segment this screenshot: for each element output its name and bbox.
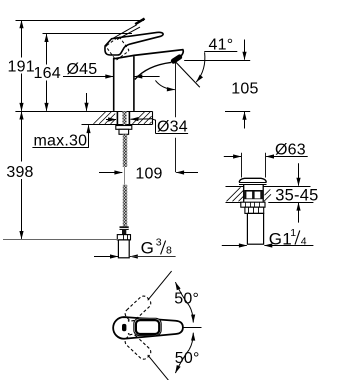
small arc at aerator [155,80,174,89]
centerline right [184,327,202,329]
body right edge [133,56,135,111]
dimension max.30 [32,93,89,148]
svg-text:1: 1 [290,227,296,239]
mounting nut [116,126,132,130]
D63 extension lines [241,153,243,178]
valve seat line [244,190,262,192]
valve tail pipe [247,213,263,244]
ref line top of raised handle (191) [16,20,144,22]
50 deg leader arcs up [189,306,193,323]
dimension D34 leader and label [106,118,188,133]
50 deg diagonal up [148,271,172,300]
threaded rod [123,111,127,134]
dimension 164 [46,34,48,111]
small slot [122,324,126,331]
label G3/8 [131,256,176,258]
dashed lever position up [123,294,153,323]
valve collar castellated [245,207,264,213]
deck level ref line right (105 bottom) [225,111,250,113]
svg-text:4: 4 [301,235,307,247]
dimension G3/8 [94,256,146,258]
dimension G1 1/4 [222,245,314,247]
svg-text:35-45: 35-45 [275,186,318,204]
41 deg arc [196,52,205,82]
svg-text:398: 398 [6,164,33,181]
hose lower segment [123,185,127,227]
50 deg diagonal down [148,355,172,380]
hose end collar [120,226,129,230]
dimension 105 [244,40,246,129]
dots [128,320,130,322]
deck bottom line [82,124,153,126]
svg-text:50°: 50° [174,291,199,308]
svg-text:164: 164 [34,65,61,82]
aerator extension line [175,62,177,117]
dimension 109 [99,172,198,174]
dashed lever position down [123,332,153,361]
D63 dimension [224,156,308,158]
deck hatch right [133,112,152,124]
shank tube [116,111,118,125]
raised lever thin lines [112,25,137,39]
window outer outline [134,318,161,335]
svg-text:Ø45: Ø45 [67,61,98,78]
valve locknut flange [241,202,265,207]
lower fitting [119,129,129,134]
deck top line [15,111,152,113]
valve body [243,184,245,202]
handle top view body [113,317,183,339]
aerator level ref line (105 top) [184,60,250,62]
valve dark band with windows [244,191,263,200]
svg-text:8: 8 [166,245,172,257]
aerator [173,57,179,61]
stream line [176,62,200,87]
dimension 398 [21,112,23,239]
drain deck top line [226,186,244,188]
svg-text:G1: G1 [269,229,292,248]
svg-text:191: 191 [8,58,35,75]
dimension 35-45 [298,163,300,222]
drain deck hatch [227,187,272,201]
svg-text:G: G [141,239,154,258]
raised lever tip stroke [135,19,144,25]
G3/8 tube [118,240,129,258]
svg-text:50°: 50° [175,350,200,367]
valve cap dome [239,178,266,182]
dimension 191 [21,20,23,110]
handle window [136,320,159,334]
svg-text:3: 3 [156,237,162,249]
deck right edge [152,111,154,125]
svg-text:Ø34: Ø34 [157,119,188,136]
50 deg leader arcs down [189,333,193,350]
spout underside [135,62,171,79]
hose nut [117,235,130,240]
hose break thin line [124,167,126,185]
svg-text:109: 109 [135,165,162,182]
398 bottom ref line [3,239,118,241]
drain deck bottom line [226,202,241,204]
faucet body top edge and spout [114,50,184,59]
dashed knob (alternate position) [106,36,130,60]
ref line top of lever (164) [43,33,133,35]
hose upper segment [123,134,127,167]
svg-text:105: 105 [231,80,258,97]
svg-text:41°: 41° [209,36,234,53]
deck hatch left [94,112,116,124]
handle knob and lever [105,32,163,55]
svg-text:max.30: max.30 [34,133,88,150]
hose end neck [122,230,126,235]
body left edge [113,58,115,111]
